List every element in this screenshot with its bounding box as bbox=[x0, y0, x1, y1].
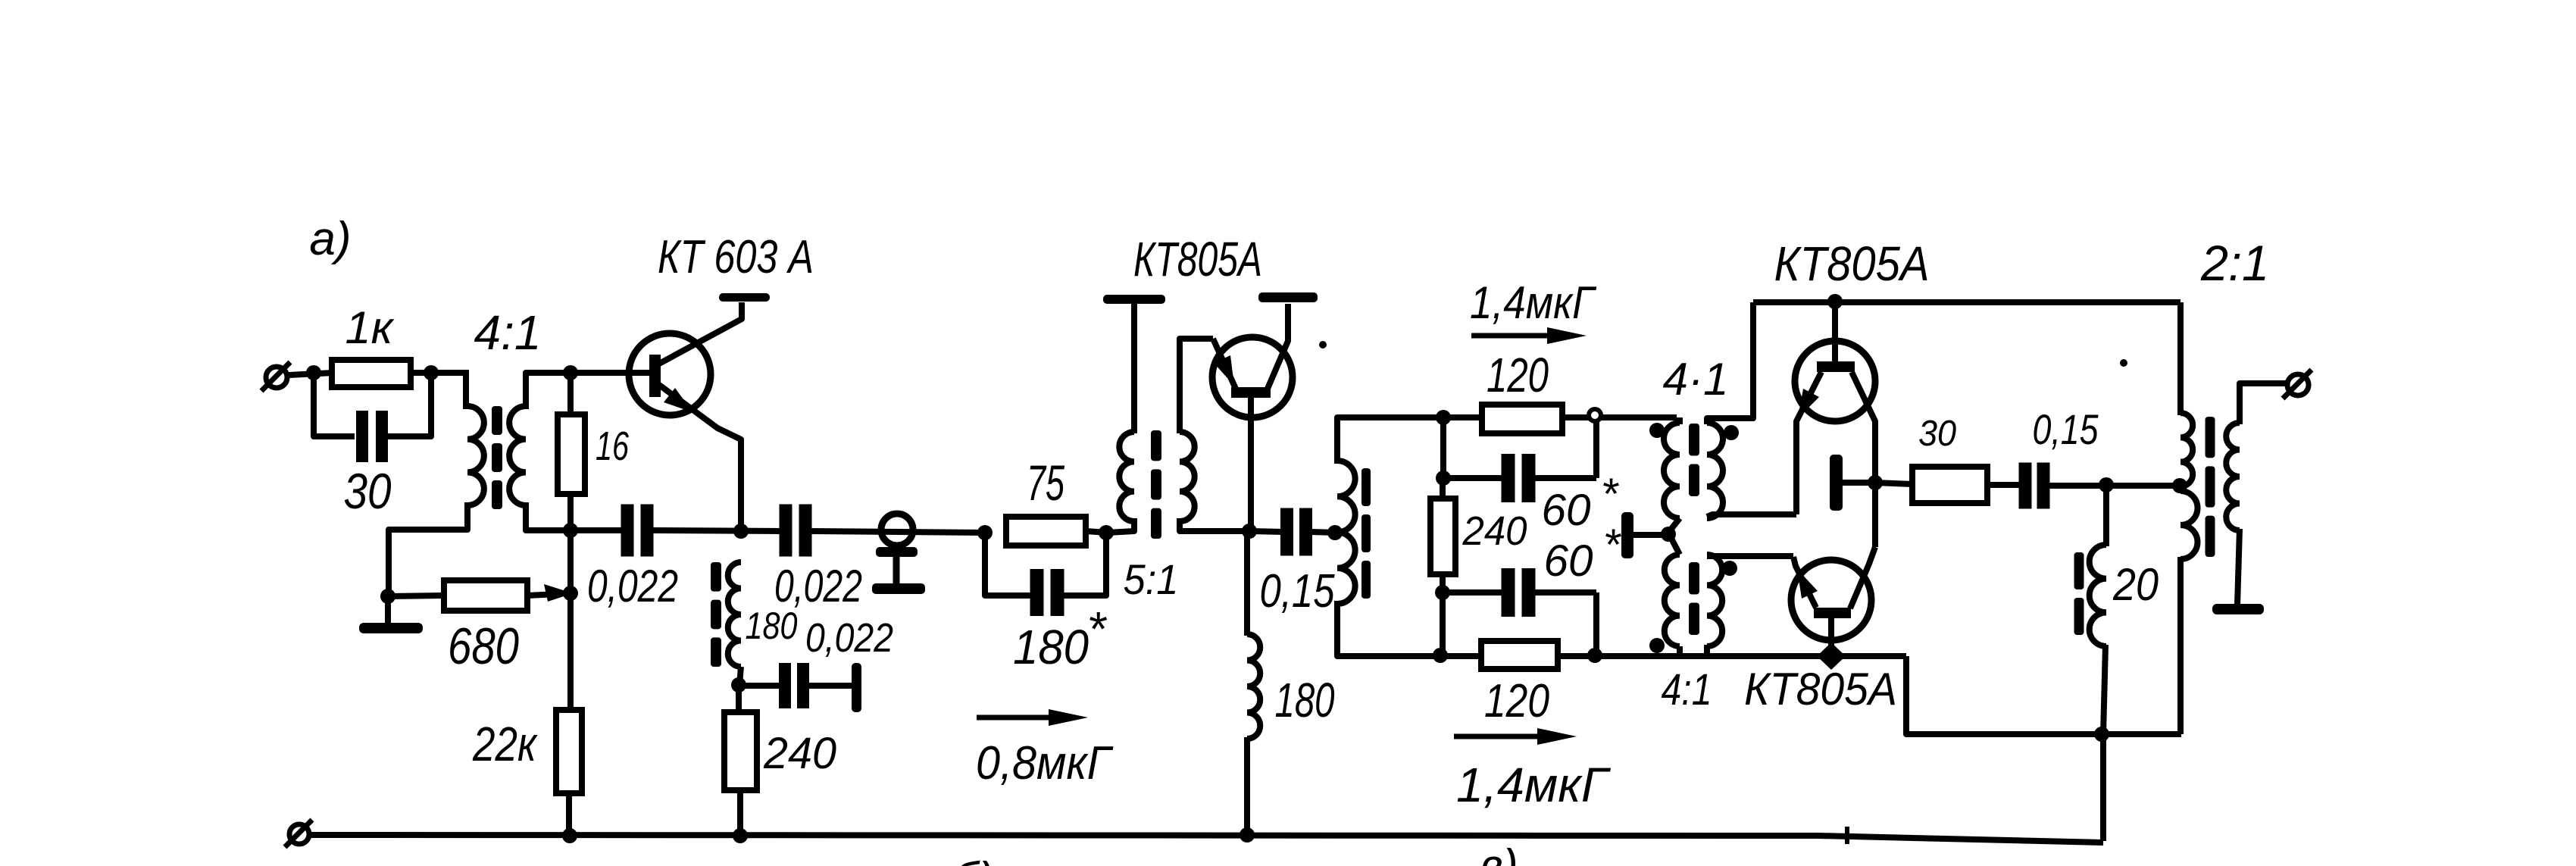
wire bbox=[1244, 532, 1250, 636]
T3 lower sec top wire bbox=[1707, 553, 1792, 559]
Q4 base wire bbox=[1828, 618, 1834, 656]
capacitor 0.022 first bbox=[621, 505, 634, 557]
svg-text:КТ805А: КТ805А bbox=[1774, 236, 1930, 291]
polarity dot lower secondary bbox=[1722, 561, 1737, 576]
svg-text:*: * bbox=[1603, 521, 1622, 570]
wire bbox=[2048, 483, 2181, 489]
node Q3 base rail bbox=[1827, 294, 1843, 309]
node Q2 base bbox=[1242, 524, 1257, 539]
arrow 0.8 bbox=[977, 715, 1058, 721]
resistor 680 bbox=[444, 580, 527, 611]
svg-text:КТ 603 А: КТ 603 А bbox=[658, 231, 814, 283]
node bbox=[731, 677, 746, 692]
Q4 collector link bbox=[1850, 547, 1875, 608]
rail tick bbox=[1845, 827, 1849, 844]
T1 core bbox=[492, 406, 502, 435]
Q1 emitter arrow bbox=[664, 388, 692, 412]
wire bbox=[2100, 734, 2106, 841]
svg-text:*: * bbox=[1601, 470, 1620, 519]
inductor 20 bbox=[2090, 545, 2106, 646]
svg-text:120: 120 bbox=[1487, 348, 1549, 402]
wire tap V bbox=[1668, 518, 1680, 555]
svg-text:КТ805А: КТ805А bbox=[1744, 664, 1897, 714]
wire bbox=[2103, 485, 2109, 546]
wire bbox=[737, 790, 743, 836]
Q3 emitter bbox=[1796, 372, 1821, 514]
wire T1 sec bottom bbox=[526, 502, 571, 530]
svg-text:а): а) bbox=[309, 213, 351, 265]
transformer T2 secondary bbox=[1180, 432, 1195, 521]
wire bbox=[1311, 532, 1336, 533]
svg-text:5:1: 5:1 bbox=[1124, 555, 1179, 603]
node 680 arrow bbox=[563, 586, 578, 601]
wire bbox=[1533, 589, 1596, 596]
node rail 240 bbox=[733, 828, 748, 843]
T3 upper secondary bbox=[1707, 423, 1723, 518]
capacitor 60 upper bbox=[1502, 454, 1515, 502]
svg-text:4:1: 4:1 bbox=[1662, 665, 1712, 714]
bottom rail bbox=[310, 835, 2103, 843]
svg-text:30: 30 bbox=[1918, 414, 1956, 454]
wire bbox=[571, 527, 623, 533]
svg-text:1,4мкГ: 1,4мкГ bbox=[1470, 277, 1597, 328]
svg-text:1к: 1к bbox=[345, 302, 395, 353]
T4 core bbox=[2206, 417, 2215, 458]
T4 prim top wire bbox=[2177, 302, 2184, 415]
wire bottom step bbox=[1906, 656, 2181, 734]
Q3 collector bbox=[1852, 372, 1875, 483]
wire bbox=[1063, 533, 1106, 596]
wire T2 sec top bbox=[1180, 339, 1213, 433]
Q3 base wire bbox=[1832, 302, 1838, 361]
wire bbox=[1249, 531, 1283, 532]
Q2 base wire bbox=[1248, 398, 1254, 533]
Q1 base bar bbox=[649, 355, 661, 397]
wire bbox=[1443, 475, 1505, 481]
svg-text:240: 240 bbox=[763, 729, 836, 778]
wire 680 left bbox=[389, 596, 444, 596]
transistor Q2 circle bbox=[1212, 337, 1293, 417]
resistor 75 bbox=[1006, 517, 1086, 546]
wire bbox=[808, 683, 853, 689]
Q2 base bar bbox=[1231, 387, 1271, 398]
ink speck bbox=[1319, 341, 1327, 349]
Q3 emitter arrow bbox=[1798, 389, 1819, 418]
T3 lower core bbox=[1689, 562, 1699, 595]
svg-text:1,4мкГ: 1,4мкГ bbox=[1456, 758, 1611, 812]
node bbox=[1436, 471, 1451, 486]
wire 680 right bbox=[527, 594, 558, 596]
wire bbox=[810, 531, 986, 533]
svg-text:в): в) bbox=[1479, 840, 1518, 866]
wire bbox=[1533, 475, 1596, 481]
svg-text:0,15: 0,15 bbox=[1260, 565, 1335, 617]
svg-text:б): б) bbox=[953, 853, 994, 866]
node cross ind20 bbox=[2094, 727, 2109, 742]
ring junction bbox=[1589, 409, 1601, 421]
node gnd-1 bbox=[380, 589, 395, 604]
wire input to R 1k bbox=[288, 373, 333, 375]
node emitter junction bbox=[563, 523, 578, 538]
Q1 collector bbox=[659, 302, 742, 364]
bottom terminal bbox=[289, 824, 309, 844]
node ind20 top bbox=[2099, 477, 2114, 492]
svg-text:60: 60 bbox=[1544, 536, 1593, 586]
svg-text:30: 30 bbox=[344, 463, 392, 519]
wire T4 sec bottom bbox=[2237, 529, 2240, 605]
wire T2 sec bottom bbox=[1180, 518, 1251, 531]
polarity dot upper secondary bbox=[1724, 425, 1739, 440]
svg-text:КТ805А: КТ805А bbox=[1133, 232, 1262, 286]
node net bottom-left bbox=[1433, 648, 1448, 663]
T3 upper sec top wire bbox=[1707, 302, 1753, 424]
wire bbox=[1704, 645, 1710, 655]
wire 16 top bbox=[567, 373, 574, 414]
transformer T1 primary bbox=[467, 406, 484, 505]
resistor 30 out bbox=[1912, 467, 1987, 503]
inductor 180 second bbox=[1247, 634, 1260, 739]
Q1 emitter bbox=[659, 385, 741, 530]
resistor 1k bbox=[332, 360, 411, 387]
polarity dot lower primary bbox=[1649, 638, 1665, 653]
svg-text:0,15: 0,15 bbox=[2033, 405, 2099, 453]
wire T2 prim bottom bbox=[1108, 518, 1134, 533]
svg-text:*: * bbox=[1087, 602, 1108, 656]
node T4 tap bbox=[2172, 478, 2187, 493]
svg-text:180: 180 bbox=[1275, 673, 1335, 727]
T3 upper sec bottom wire bbox=[1707, 514, 1796, 517]
capacitor 60 lower bbox=[1502, 568, 1515, 617]
resistor 120 bottom bbox=[1481, 641, 1558, 669]
svg-text:680: 680 bbox=[448, 617, 519, 675]
core of 180 first bbox=[711, 562, 721, 592]
node Q4 base diamond bbox=[1817, 642, 1846, 670]
wire bbox=[1677, 417, 1683, 424]
svg-text:22к: 22к bbox=[472, 717, 538, 771]
svg-text:120: 120 bbox=[1484, 675, 1549, 727]
top rail bbox=[1753, 299, 2181, 305]
Q2 emitter bbox=[1213, 339, 1236, 389]
svg-text:4·1: 4·1 bbox=[1663, 354, 1729, 405]
input terminal bbox=[266, 367, 287, 388]
arrow 1.4 bottom bbox=[1454, 734, 1546, 739]
arrow 1.4 top bbox=[1471, 333, 1556, 339]
node in-left bbox=[306, 365, 321, 380]
transformer T1 secondary bbox=[509, 406, 526, 505]
node rail 180 bbox=[1240, 827, 1255, 843]
wire bbox=[1677, 646, 1683, 656]
wire bbox=[1440, 417, 1446, 480]
wire collectors bbox=[1872, 483, 1878, 547]
terminal bar cap output bbox=[1830, 455, 1843, 511]
probe jack symbol bbox=[881, 514, 913, 546]
node bbox=[1435, 585, 1450, 600]
resistor 120 top bbox=[1482, 405, 1562, 433]
wire tank bottom bbox=[1337, 601, 1906, 656]
wire T1 prim bottom bbox=[389, 502, 467, 596]
svg-text:0,022: 0,022 bbox=[774, 561, 862, 611]
T4 secondary bbox=[2226, 423, 2240, 530]
wire cap30 right bbox=[388, 376, 431, 436]
svg-text:0,022: 0,022 bbox=[805, 615, 893, 661]
svg-text:16: 16 bbox=[596, 424, 630, 469]
Q3 base bar bbox=[1817, 361, 1855, 372]
wire T4 sec top bbox=[2240, 383, 2288, 424]
Q4 base bar bbox=[1814, 608, 1851, 618]
svg-text:180: 180 bbox=[746, 605, 798, 647]
node 75 right bbox=[1099, 525, 1114, 540]
node emitter Q1 bbox=[733, 524, 749, 539]
wire bbox=[1843, 480, 1875, 486]
tank coil bbox=[1337, 461, 1355, 604]
svg-text:2:1: 2:1 bbox=[2200, 235, 2269, 291]
Q4 emitter arrow bbox=[1797, 569, 1818, 599]
T3 upper primary bbox=[1664, 423, 1680, 518]
node rail 22k bbox=[562, 828, 577, 843]
capacitor 0.022 second bbox=[780, 505, 792, 557]
wire 16 bottom bbox=[567, 494, 574, 532]
wire bbox=[652, 530, 781, 531]
transformer T2 primary bbox=[1119, 432, 1134, 521]
T4 primary upper bbox=[2181, 413, 2193, 486]
svg-text:240: 240 bbox=[1462, 508, 1527, 554]
node T3 tap bbox=[1661, 527, 1676, 542]
wire down to 22k bbox=[567, 530, 574, 710]
polarity dot upper primary bbox=[1649, 423, 1665, 438]
wire to T1 bbox=[463, 373, 469, 409]
inductor 180 first bbox=[728, 562, 741, 667]
wire bbox=[739, 667, 741, 685]
Q4 emitter bbox=[1793, 557, 1816, 608]
supply bar Q2 bbox=[1258, 292, 1318, 302]
terminal bar bbox=[852, 663, 861, 712]
wire bbox=[1633, 532, 1667, 538]
wire bbox=[1131, 304, 1137, 433]
capacitor 180* bbox=[1030, 569, 1044, 616]
wire bbox=[1440, 478, 1446, 500]
wire bbox=[1244, 737, 1250, 836]
ground output bbox=[2212, 604, 2264, 614]
inductor 20 core bbox=[2074, 552, 2084, 589]
wire bbox=[1593, 592, 1599, 656]
ink speck 2 bbox=[2120, 359, 2127, 367]
wire bbox=[1875, 483, 1912, 484]
svg-text:0,8мкГ: 0,8мкГ bbox=[976, 737, 1114, 789]
resistor 240 first bbox=[724, 712, 757, 790]
wire bbox=[2103, 645, 2106, 734]
capacitor 0.15 out bbox=[2019, 463, 2032, 509]
wire bbox=[1443, 589, 1505, 596]
wire bbox=[411, 370, 469, 376]
collector supply bar Q1 bbox=[719, 293, 770, 302]
transistor Q4 circle bbox=[1791, 560, 1871, 640]
svg-text:20: 20 bbox=[2112, 559, 2159, 610]
T4 primary lower bbox=[2181, 491, 2198, 559]
wire bbox=[1987, 482, 2021, 488]
resistor 16 bbox=[558, 414, 585, 494]
wire bbox=[1593, 421, 1599, 478]
wire bbox=[739, 683, 780, 689]
wire bbox=[736, 685, 742, 712]
resistor 22k bbox=[556, 710, 582, 793]
wire Q4 emitter left bbox=[1709, 553, 1793, 559]
supply bar T2 bbox=[1103, 295, 1165, 304]
transistor Q3 circle bbox=[1795, 341, 1875, 421]
tank coil core bbox=[1361, 468, 1371, 506]
node tank tap bbox=[1327, 525, 1343, 540]
resistor 240 second bbox=[1430, 499, 1455, 574]
T3 lower primary bbox=[1665, 555, 1680, 646]
node 75 left bbox=[977, 525, 993, 540]
T3 upper core bbox=[1689, 424, 1699, 456]
svg-text:60: 60 bbox=[1542, 486, 1591, 535]
terminal bar cap driver bbox=[1621, 512, 1633, 558]
wire T4 spine lower bbox=[2177, 557, 2184, 734]
node net top-left bbox=[1436, 410, 1451, 425]
node net bottom-right bbox=[1587, 648, 1602, 663]
svg-text:180: 180 bbox=[1013, 620, 1089, 674]
wire bbox=[1440, 574, 1446, 656]
T2 core bbox=[1151, 430, 1161, 461]
ground input bbox=[385, 596, 391, 626]
node in-right bbox=[424, 365, 439, 380]
svg-text:4:1: 4:1 bbox=[474, 305, 542, 360]
wire 22k bottom bbox=[566, 793, 572, 836]
svg-text:75: 75 bbox=[1027, 455, 1064, 511]
svg-text:0,022: 0,022 bbox=[587, 561, 678, 611]
wire T1 sec top bbox=[526, 373, 652, 409]
wire tank top bbox=[1337, 417, 1677, 464]
node collectors bbox=[1868, 475, 1883, 490]
wire cap30 left bbox=[314, 373, 355, 436]
wire bbox=[1086, 531, 1108, 533]
capacitor 0.15 first bbox=[1280, 508, 1293, 556]
wire 180* branch bbox=[985, 533, 1031, 596]
capacitor 0.022 third bbox=[779, 663, 791, 708]
Q2 emitter arrow bbox=[1214, 355, 1234, 386]
capacitor 30 bbox=[356, 411, 368, 462]
node base Q1 bbox=[563, 365, 578, 380]
transistor Q1 circle bbox=[629, 333, 711, 415]
output terminal bbox=[2287, 374, 2309, 395]
Q2 collector bbox=[1268, 304, 1288, 389]
T3 lower secondary bbox=[1707, 555, 1722, 646]
